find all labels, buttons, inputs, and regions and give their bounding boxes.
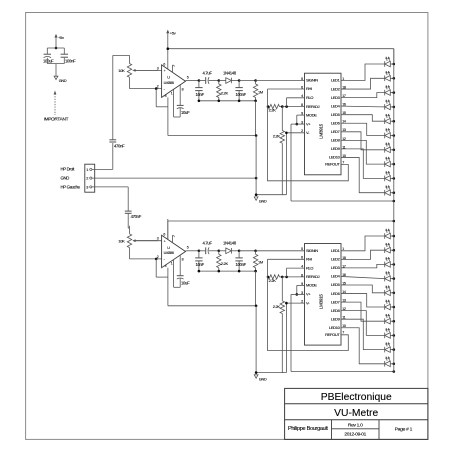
svg-text:Rev 1.0: Rev 1.0 [348,423,363,429]
capacitor 100nF channel 2 [238,251,240,258]
op-amp pin 2 ground link [155,89,157,107]
wire LED anode to rail [390,192,394,194]
filter ground rail [199,100,256,102]
LED driver IC LM3915 channel 2 [305,244,342,346]
title block box [285,388,428,439]
svg-text:Page # 1: Page # 1 [395,427,413,433]
svg-text:2: 2 [86,177,88,181]
svg-text:2012-09-01: 2012-09-01 [344,432,366,438]
capacitor 10nF channel 1 [198,81,200,88]
svg-text:2.2K: 2.2K [221,261,229,266]
svg-text:LED9: LED9 [331,316,340,321]
svg-text:LED8: LED8 [331,138,341,143]
svg-text:LED6: LED6 [331,291,341,296]
wire V+ feed channel 2 [290,294,292,371]
wire V+ to +5V rail [291,293,305,295]
svg-text:LED3: LED3 [331,265,341,270]
wire REFOUT return channel 2 [268,259,349,350]
capacitor 10uF gain channel 2 [179,255,181,276]
wire caps to ground [46,58,48,64]
LED D4 channel 1 [384,104,386,110]
svg-text:2.2K: 2.2K [273,134,281,139]
wire LED anode to rail [390,177,394,179]
wire LED2 channel 1 [341,78,385,89]
capacitor 10uF gain channel 1 [179,85,181,106]
wire LED5 channel 1 [341,115,385,122]
LED D5 channel 2 [384,290,386,296]
svg-text:10uF: 10uF [181,110,190,115]
svg-text:10uF: 10uF [181,280,190,285]
resistor 2.2K reference-a channel 2 [268,275,280,279]
wire RLO [287,97,305,99]
capacitor 10nF channel 2 [198,251,200,258]
capacitor 100uF [44,53,51,55]
potentiometer 10K channel 1 [129,55,131,63]
wire RLO [287,267,305,269]
resistor 1M channel 1 [239,80,256,82]
svg-text:LED10: LED10 [329,325,341,330]
resistor 2.2K filter channel 1 [218,81,220,85]
LED driver IC LM3915 channel 1 [305,73,342,175]
ground GND channel 1 [254,197,258,200]
wire pot bottom to op-amp -in [129,248,131,259]
wire LED2 channel 2 [341,250,385,259]
wire LED anode to rail [390,120,394,122]
wire LED anode to rail [390,235,394,237]
svg-text:LED1: LED1 [331,248,340,253]
wire V- to ground channel 2 [286,302,304,304]
svg-text:4.7uF: 4.7uF [203,70,213,75]
wire LED7 channel 1 [341,132,385,150]
LED D9 channel 2 [384,347,386,353]
wire pot bottom to op-amp -in [129,77,131,88]
diode D2 1N4148 [219,250,226,252]
wire LED8 channel 2 [341,311,385,336]
ground link channel 1 [256,194,286,196]
wire REFOUT return channel 1 [268,89,349,181]
wire MODE to V+ [297,114,305,116]
wire cap to pot top [112,55,114,139]
svg-text:REFOUT: REFOUT [325,332,340,337]
LED D5 channel 1 [384,118,386,124]
svg-text:GND: GND [61,176,70,181]
svg-text:MODE: MODE [306,112,317,117]
svg-text:HP Gauche: HP Gauche [61,184,81,189]
svg-text:SIGNIN: SIGNIN [306,248,318,253]
resistor 2.2K reference-a channel 1 [268,104,280,108]
capacitor C-in 470nF channel 2 [125,210,132,212]
wire V+ feed channel 1 [290,124,292,201]
wire pot wiper to op-amp +in [137,240,162,242]
IMPORTANT dashed arrow [54,94,56,116]
svg-text:VU-Metre: VU-Metre [334,408,378,419]
svg-text:470nF: 470nF [131,214,142,219]
LED D3 channel 1 [384,90,386,96]
svg-text:RLO: RLO [306,265,313,270]
LED D2 channel 2 [384,247,386,253]
svg-text:LED2: LED2 [331,257,340,262]
resistor 2.2K filter channel 2 [218,251,220,255]
svg-text:2.2K: 2.2K [269,278,277,283]
wire LED anode to rail [390,77,394,79]
wire RHI to REFOUT loop [268,88,305,90]
wire LED anode to rail [390,249,394,251]
svg-text:LED3: LED3 [331,95,341,100]
LED D6 channel 1 [384,133,386,139]
wire LED anode to rail [390,320,394,322]
wire LED anode to rail [390,349,394,351]
svg-text:PBElectronique: PBElectronique [321,392,392,403]
LED D4 channel 2 [384,276,386,282]
ground GND power [54,76,58,79]
+5V rail wire channel 2 [168,220,394,222]
wire signal to LM3915 [256,80,305,82]
svg-text:1N4148: 1N4148 [223,241,237,246]
svg-text:+5v: +5v [58,35,64,40]
wire REFADJ [282,276,304,278]
op-amp pin 6 supply wire [167,219,169,240]
wire signal to LM3915 [256,250,305,252]
ground return wire [168,135,256,137]
wire LED anode to rail [390,334,394,336]
LED D8 channel 2 [384,333,386,339]
svg-text:LM386: LM386 [164,81,174,85]
power +5V symbol [55,37,57,49]
LED D6 channel 2 [384,304,386,310]
power +5V symbol channel 1 [167,32,169,49]
svg-text:+5v: +5v [170,31,176,36]
op-amp pin 2 ground link [155,259,157,277]
wire LED anode to rail [390,263,394,265]
svg-text:4.7uF: 4.7uF [203,241,213,246]
wire +5V to caps [47,47,64,49]
op-amp pin 4 ground wire [167,97,169,135]
svg-text:RHI: RHI [306,257,312,262]
op-amp U1 LM386 [162,65,186,98]
svg-text:REFADJ: REFADJ [306,274,320,279]
wire LED anode to rail [390,363,394,365]
svg-text:LED9: LED9 [331,146,340,151]
op-amp pin 5 output wire [186,250,199,252]
filter ground rail [199,270,256,272]
svg-text:LED10: LED10 [329,155,341,160]
op-amp pin 4 ground wire [167,268,169,306]
svg-text:MODE: MODE [306,283,317,288]
svg-text:5: 5 [301,247,303,251]
wire pot wiper to op-amp +in [137,69,162,71]
wire V+ to +5V rail [291,123,305,125]
capacitor 4.7uF channel 1 [199,80,206,82]
svg-text:2.2K: 2.2K [221,91,229,96]
wire LED anode to rail [390,106,394,108]
svg-text:100nF: 100nF [236,92,247,97]
wire LED1 channel 2 [341,236,385,251]
wire LED4 channel 1 [341,105,385,108]
LED D3 channel 2 [384,262,386,268]
capacitor C-in 470nF channel 1 [109,141,116,143]
wire LED6 channel 2 [341,294,385,307]
svg-text:Philippe Bourgault: Philippe Bourgault [288,426,328,432]
svg-text:7: 7 [342,331,344,335]
op-amp U2 LM386 [162,235,186,268]
wire LED6 channel 1 [341,123,385,135]
wire LED5 channel 2 [341,285,385,293]
svg-text:470nF: 470nF [114,144,125,149]
svg-text:LED5: LED5 [331,112,341,117]
svg-text:10nF: 10nF [196,92,205,97]
svg-text:RHI: RHI [306,86,312,91]
wire LED8 channel 1 [341,140,385,164]
capacitor 100nF [61,53,68,55]
svg-text:7: 7 [342,160,344,164]
op-amp pin 7 bypass stub [172,235,174,242]
wire LED10 channel 2 [341,328,385,364]
ground link channel 2 [256,372,286,374]
diode D1 1N4148 [219,80,226,82]
svg-text:LED7: LED7 [331,129,340,134]
LED D10 channel 2 [384,361,386,367]
svg-text:IMPORTANT: IMPORTANT [44,117,69,122]
connector J1 box [85,164,95,192]
svg-text:1M: 1M [258,260,263,265]
LED D7 channel 1 [384,147,386,153]
svg-text:LED2: LED2 [331,86,340,91]
wire HP Gauche to coupling cap [92,186,128,188]
svg-text:1M: 1M [258,89,263,94]
LED supply rail [393,49,395,372]
svg-text:REFADJ: REFADJ [306,104,320,109]
capacitor 4.7uF channel 2 [199,250,206,252]
op-amp pin 7 bypass stub [172,65,174,72]
wire LED9 channel 1 [341,149,385,179]
LED D10 channel 1 [384,190,386,196]
svg-text:LED8: LED8 [331,308,341,313]
wire LED9 channel 2 [341,319,385,349]
svg-text:LED6: LED6 [331,120,341,125]
op-amp pin 5 output wire [186,80,199,82]
LED D9 channel 1 [384,176,386,182]
svg-text:100nF: 100nF [65,59,76,64]
svg-text:1N4148: 1N4148 [223,70,237,75]
LED D2 channel 1 [384,76,386,82]
svg-text:LM386: LM386 [164,251,174,255]
svg-text:100uF: 100uF [43,59,54,64]
wire HP Droit to coupling cap [92,168,113,170]
svg-text:2.2K: 2.2K [269,108,277,113]
svg-text:100nF: 100nF [236,262,247,267]
ground return wire [168,305,256,307]
svg-text:1: 1 [86,168,88,172]
svg-text:HP Droit: HP Droit [61,167,76,172]
wire cap to pot top [127,213,129,228]
svg-text:GND: GND [259,377,267,381]
potentiometer 10K channel 2 [129,226,131,234]
svg-text:LED7: LED7 [331,299,340,304]
wire LED anode to rail [390,292,394,294]
wire LED anode to rail [390,63,394,65]
wire LED anode to rail [390,306,394,308]
LED D1 channel 2 [384,233,386,239]
capacitor 100nF channel 1 [238,81,240,88]
wire REFADJ [282,106,304,108]
wire V- to ground channel 1 [286,132,304,134]
wire RHI to REFOUT loop [268,258,305,260]
wire LED3 channel 1 [341,93,385,98]
LED D7 channel 2 [384,318,386,324]
svg-text:5: 5 [301,77,303,81]
wire LED7 channel 2 [341,302,385,321]
wire LED anode to rail [390,278,394,280]
svg-text:LM3915: LM3915 [319,294,324,310]
wire LED1 channel 1 [341,64,385,81]
wire LED anode to rail [390,135,394,137]
wire LED anode to rail [390,149,394,151]
svg-text:GND: GND [59,79,67,83]
svg-text:3: 3 [86,185,88,189]
svg-text:10nF: 10nF [196,262,205,267]
svg-text:2.2K: 2.2K [273,304,281,309]
resistor 2.2K reference-b channel 1 [281,107,283,131]
wire LED4 channel 2 [341,276,385,278]
wire LED3 channel 2 [341,264,385,268]
svg-text:LED4: LED4 [331,103,341,108]
wire LED anode to rail [390,163,394,165]
svg-text:LED1: LED1 [331,78,340,83]
svg-text:LM3915: LM3915 [319,123,324,139]
LED D8 channel 1 [384,161,386,167]
svg-text:LED5: LED5 [331,282,341,287]
svg-text:LED4: LED4 [331,274,341,279]
svg-text:SIGNIN: SIGNIN [306,78,318,83]
svg-text:REFOUT: REFOUT [325,162,340,167]
resistor 1M channel 2 [239,250,256,252]
wire MODE to V+ [297,284,305,286]
wire GND net from connector [92,177,256,179]
svg-text:RLO: RLO [306,95,313,100]
wire LED10 channel 1 [341,157,385,192]
resistor 2.2K reference-b channel 2 [281,277,283,301]
LED D1 channel 1 [384,61,386,67]
svg-text:10K: 10K [118,68,125,73]
op-amp pin 6 supply wire [167,49,169,69]
svg-text:10K: 10K [118,238,125,243]
wire LED anode to rail [390,92,394,94]
ground GND channel 2 [254,375,258,378]
svg-text:GND: GND [259,200,267,204]
